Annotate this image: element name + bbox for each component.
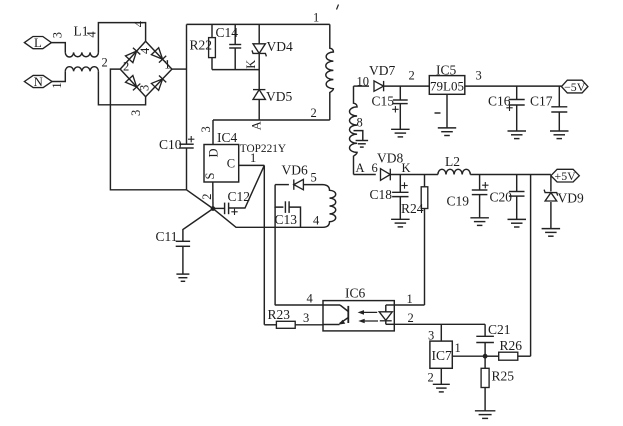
- svg-text:N: N: [34, 75, 43, 89]
- ground below C20: [508, 219, 527, 227]
- capacitor C18: [392, 175, 408, 220]
- transformer secondary winding: [350, 86, 358, 174]
- svg-text:IC6: IC6: [345, 286, 366, 301]
- wire IC7 pin1: [452, 355, 485, 357]
- wire IC6 pin1: [394, 304, 424, 306]
- ground below C16: [508, 131, 527, 139]
- inductor L2: [438, 169, 470, 174]
- svg-text:8: 8: [357, 116, 363, 130]
- wire IC4 pin2 lead S: [212, 182, 214, 209]
- svg-text:K: K: [402, 161, 411, 175]
- svg-text:C20: C20: [490, 190, 513, 205]
- capacitor C19: [472, 175, 489, 218]
- svg-text:1: 1: [50, 82, 64, 88]
- inductor L1 winding b: [52, 67, 146, 105]
- svg-text:C: C: [227, 156, 235, 170]
- wire VD4 top lead: [258, 24, 260, 44]
- svg-text:1: 1: [164, 58, 170, 72]
- svg-text:C12: C12: [228, 189, 251, 204]
- svg-text:R23: R23: [268, 307, 291, 322]
- wire C12 to pin1 diagonal: [229, 165, 265, 208]
- svg-text:R24: R24: [401, 201, 424, 216]
- ic IC5 minus mark: [435, 112, 441, 114]
- svg-text:S: S: [203, 173, 217, 180]
- bridge rectifier diamond: [120, 41, 172, 96]
- connector +5V: [551, 169, 579, 183]
- wire VD7 to IC5: [384, 85, 430, 87]
- connector -5V: [562, 80, 588, 94]
- svg-text:3: 3: [138, 85, 152, 91]
- svg-text:C21: C21: [488, 322, 511, 337]
- wire IC4 pin1 lead C: [239, 164, 265, 166]
- transformer aux winding: [323, 185, 336, 228]
- svg-text:+5V: +5V: [555, 169, 577, 183]
- svg-text:IC4: IC4: [217, 130, 238, 145]
- wire VD6 node down to IC6 pin4: [274, 207, 276, 305]
- wire IC4 pin3 lead: [212, 120, 214, 145]
- capacitor C13: [285, 201, 289, 213]
- zener diode VD4: [252, 44, 266, 57]
- wire IC5 ground lead: [446, 94, 448, 128]
- wire IC6 pin2: [394, 323, 485, 325]
- resistor R22: [209, 24, 216, 69]
- bridge diode bottom-left: [125, 75, 140, 90]
- svg-text:−5V: −5V: [564, 80, 586, 94]
- svg-text:L: L: [34, 36, 42, 50]
- svg-text:R22: R22: [190, 38, 213, 53]
- wire pin10 to VD7: [354, 85, 370, 87]
- svg-text:C16: C16: [488, 94, 511, 109]
- svg-text:1: 1: [455, 341, 461, 355]
- ground below IC5: [438, 128, 456, 136]
- wire VD8 to L2: [390, 174, 438, 176]
- resistor R23: [264, 321, 323, 328]
- ground below C11: [176, 274, 189, 281]
- svg-text:2: 2: [428, 371, 434, 385]
- svg-text:3: 3: [428, 329, 434, 343]
- svg-text:1: 1: [250, 151, 256, 165]
- wire drain line: [213, 119, 330, 121]
- svg-text:3: 3: [129, 110, 143, 116]
- ground secondary tap: [356, 141, 369, 148]
- capacitor C15: [392, 86, 408, 129]
- ic IC6 phototransistor: [323, 304, 340, 306]
- svg-text:3: 3: [50, 32, 64, 38]
- wire VD4 VD5 link: [258, 54, 260, 89]
- svg-text:R25: R25: [492, 369, 515, 384]
- ground below C17: [550, 131, 569, 139]
- svg-text:D: D: [207, 148, 221, 157]
- wire C13 right lead: [289, 207, 300, 227]
- wire feedback from +5V: [530, 175, 532, 357]
- capacitor C21: [476, 336, 494, 342]
- capacitor C17: [551, 86, 567, 131]
- ground below C15: [391, 129, 410, 137]
- wire C pin down to R23: [263, 165, 265, 324]
- capacitor C20: [509, 175, 525, 220]
- bridge diode top-right: [151, 48, 166, 63]
- svg-text:C17: C17: [530, 94, 553, 109]
- svg-text:K: K: [244, 60, 258, 69]
- svg-text:IC7: IC7: [432, 348, 453, 363]
- svg-text:C18: C18: [370, 187, 393, 202]
- svg-text:4: 4: [85, 31, 99, 38]
- ground below C18: [391, 219, 410, 227]
- wire IC6 pin2 to C21: [484, 324, 486, 336]
- svg-text:IC5: IC5: [436, 62, 457, 77]
- wire VD6 anode lead: [275, 184, 289, 186]
- wire C11 bottom lead: [182, 246, 184, 274]
- svg-text:VD9: VD9: [558, 191, 584, 206]
- wire dot to aux bottom: [213, 209, 323, 228]
- wire C21 to junction: [484, 343, 486, 357]
- wire IC6 pin4: [275, 304, 323, 306]
- svg-text:2: 2: [311, 106, 317, 120]
- wire bridge plus to rail: [172, 68, 187, 70]
- svg-text:A: A: [356, 161, 365, 175]
- resistor R26: [485, 352, 530, 360]
- svg-text:4: 4: [132, 20, 146, 27]
- ic IC6 light arrows: [361, 311, 378, 313]
- ic IC6 box: [323, 301, 394, 331]
- svg-text:C19: C19: [447, 194, 470, 209]
- capacitor C12: [225, 203, 238, 215]
- resistor R24: [421, 175, 428, 306]
- svg-text:VD6: VD6: [282, 163, 308, 178]
- wire C10 bottom lead: [186, 148, 188, 190]
- wire IC7 pin3 lead: [440, 324, 442, 341]
- node S junction dot: [211, 206, 216, 211]
- svg-text:3: 3: [476, 69, 482, 83]
- svg-text:5: 5: [311, 171, 317, 185]
- svg-text:C14: C14: [216, 25, 239, 40]
- wire snubber bottom: [212, 69, 259, 71]
- ground below VD9: [542, 229, 561, 237]
- wire dot to C11 diagonal: [183, 209, 213, 242]
- svg-text:VD8: VD8: [377, 151, 403, 166]
- ic IC4 box: [204, 145, 239, 183]
- capacitor C11: [176, 241, 190, 246]
- svg-text:1: 1: [407, 292, 413, 306]
- wire C10 rail: [186, 24, 188, 144]
- svg-text:1: 1: [313, 11, 319, 25]
- connector L: [24, 36, 51, 50]
- wire top plus rail: [187, 23, 330, 25]
- wire C10 return diagonal: [187, 190, 214, 209]
- wire pin6 to VD8: [354, 174, 376, 176]
- svg-text:A: A: [249, 121, 263, 130]
- bridge diode bottom-right: [151, 75, 166, 90]
- ground below C19: [470, 218, 489, 226]
- diode VD6: [294, 179, 304, 189]
- diode VD5: [253, 90, 265, 100]
- svg-text:C11: C11: [156, 229, 178, 244]
- svg-text:C10: C10: [159, 137, 182, 152]
- connector N: [24, 75, 52, 89]
- bridge diode top-left: [125, 48, 140, 63]
- resistor R25: [481, 356, 489, 411]
- zener diode VD9: [544, 190, 558, 201]
- svg-text:VD7: VD7: [369, 63, 395, 78]
- ground below R25: [475, 411, 496, 419]
- wire IC5 out to -5V: [465, 85, 562, 87]
- svg-text:R26: R26: [500, 338, 523, 353]
- wire VD5 to drain line: [258, 99, 260, 120]
- diode VD7: [374, 81, 384, 91]
- node feedback junction dot: [483, 354, 488, 359]
- svg-text:79L05: 79L05: [430, 79, 464, 94]
- svg-text:VD5: VD5: [266, 89, 292, 104]
- svg-text:L2: L2: [445, 154, 460, 169]
- svg-text:C15: C15: [372, 94, 395, 109]
- ic IC5 box: [429, 76, 465, 95]
- capacitor C10: [179, 136, 194, 148]
- wire VD9 top lead: [550, 176, 552, 192]
- wire secondary tap 8: [354, 131, 363, 141]
- wire L2 to +5V: [470, 174, 551, 176]
- svg-text:3: 3: [199, 126, 213, 132]
- wire VD9 bottom lead: [550, 202, 552, 229]
- capacitor C14: [229, 24, 241, 69]
- svg-text:TOP221Y: TOP221Y: [240, 143, 286, 155]
- transformer primary winding: [326, 24, 334, 120]
- svg-text:2: 2: [408, 311, 414, 325]
- wire bridge minus return: [110, 69, 186, 190]
- svg-text:4: 4: [307, 292, 314, 306]
- wire VD6 down to C13: [275, 185, 283, 208]
- wire dot to C12: [213, 207, 225, 209]
- ic IC6 led: [386, 304, 395, 306]
- svg-text:3: 3: [303, 311, 309, 325]
- wire VD6 to winding: [303, 184, 323, 186]
- svg-text:2: 2: [200, 194, 214, 200]
- ic IC7 box: [430, 341, 452, 368]
- svg-text:4: 4: [138, 47, 152, 54]
- capacitor C16: [506, 86, 524, 131]
- inductor L1 winding a: [51, 23, 145, 57]
- ground below IC7: [433, 384, 450, 392]
- svg-text:VD4: VD4: [267, 39, 293, 54]
- diode VD8: [381, 169, 391, 181]
- svg-text:C13: C13: [275, 212, 298, 227]
- svg-text:2: 2: [123, 60, 129, 74]
- svg-text:2: 2: [102, 56, 108, 70]
- svg-text:4: 4: [313, 214, 320, 228]
- wire IC7 pin2 lead: [440, 368, 442, 384]
- stray mark: [337, 5, 339, 10]
- svg-text:2: 2: [409, 69, 415, 83]
